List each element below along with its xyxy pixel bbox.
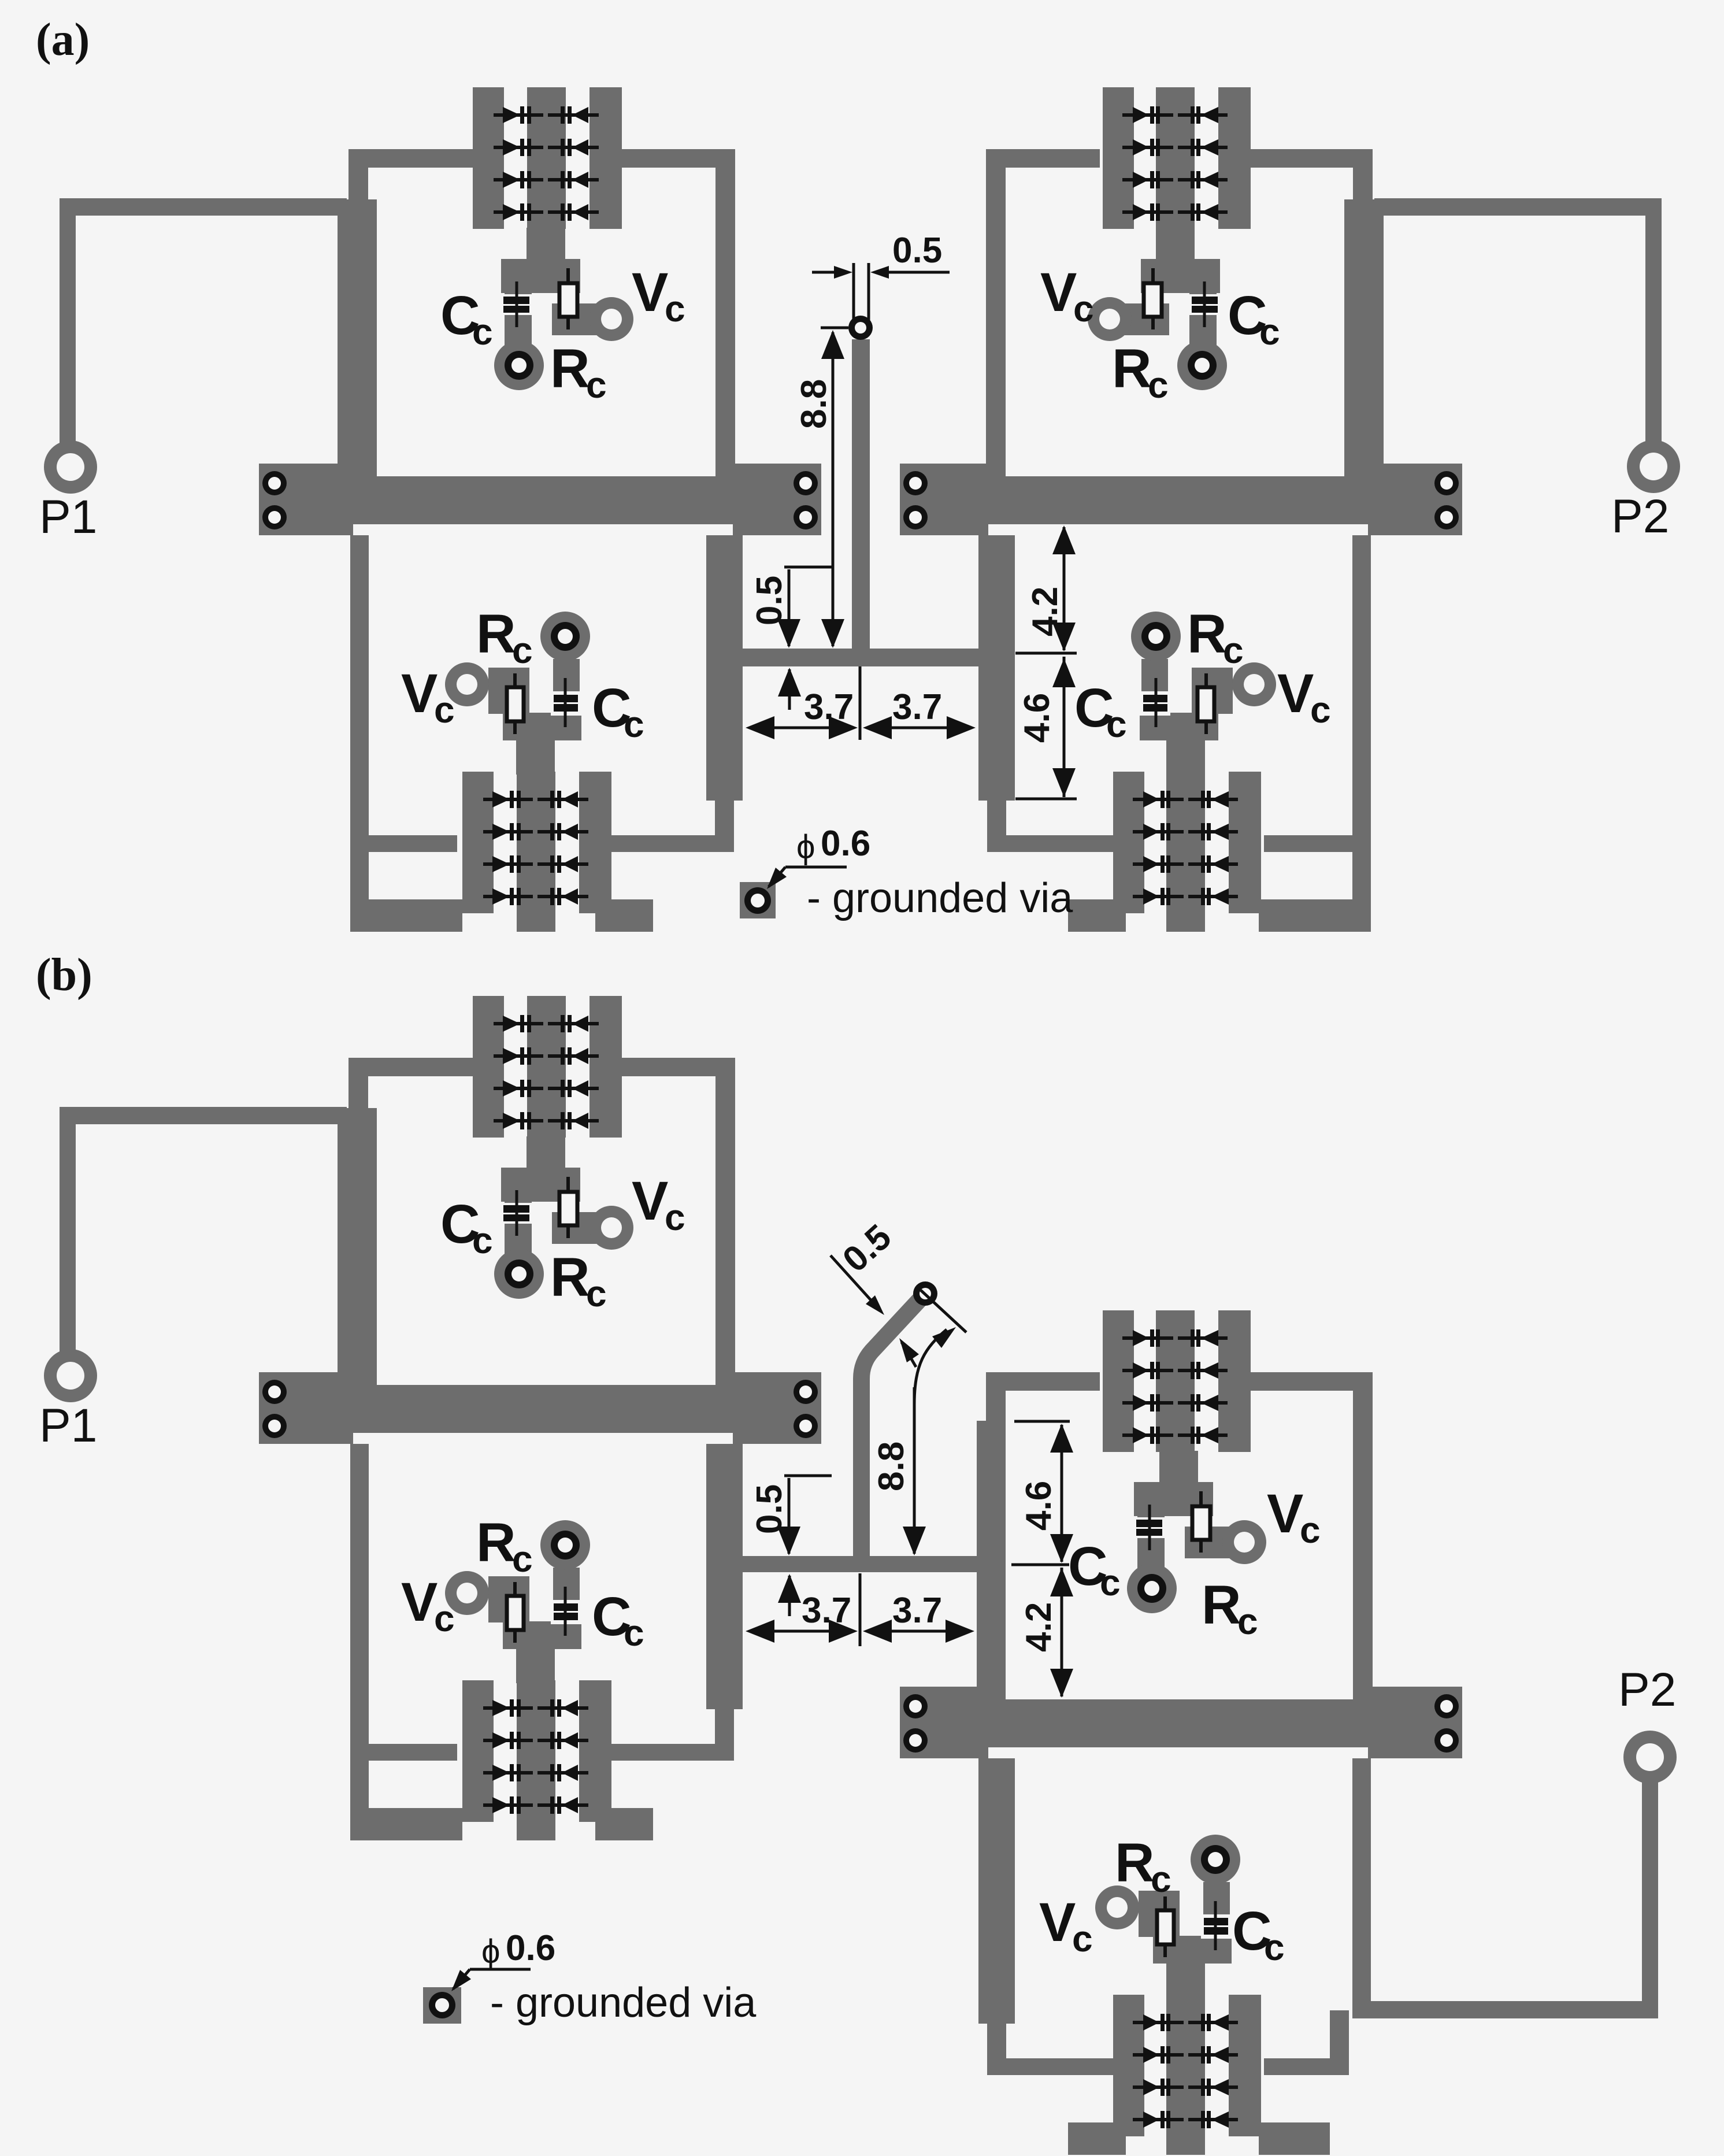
wire b top-left cell ring top bar	[348, 1058, 473, 1076]
wire a bottom-left cell inner wide wall	[706, 535, 743, 801]
dim 4.2 line (panel b)	[1011, 1564, 1069, 1566]
wire a left ground bus inner cap	[733, 464, 821, 535]
svg-text:R: R	[476, 1512, 516, 1573]
via pad Rc a top-left	[494, 340, 544, 390]
b bottom-right cell diode row 4	[1133, 2118, 1184, 2121]
dim 4.2 line (panel a)	[1015, 652, 1077, 655]
wire central bottom bus (panel b)	[743, 1556, 978, 1572]
svg-text:- grounded via: - grounded via	[807, 875, 1073, 921]
svg-text:ϕ: ϕ	[796, 828, 815, 866]
svg-text:c: c	[434, 689, 455, 731]
b top-right cell diode row 2	[1122, 1369, 1173, 1372]
wire a top-left cell ring outer wall	[348, 149, 368, 199]
wire b top-right bias L-pad	[1185, 1527, 1234, 1558]
svg-text:3.7: 3.7	[892, 1591, 942, 1631]
wire a top-right cell ring outer wall	[1353, 149, 1373, 199]
wire a bottom-right cell inner wide wall	[978, 535, 1015, 801]
wire a left ground bus band	[259, 476, 821, 524]
wire b bottom-right cell bottom bar	[1264, 2058, 1348, 2075]
resistor Rc b top-right	[1199, 1491, 1203, 1553]
b bottom-right cell diode row 2	[1133, 2053, 1184, 2057]
capacitor Cc a bottom-right gap	[1139, 691, 1170, 716]
b top-right cell diode row 3	[1122, 1401, 1173, 1405]
svg-text:4.6: 4.6	[1019, 1481, 1059, 1531]
capacitor Cc a bottom-left gap	[551, 691, 582, 716]
capacitor Cc a top-right gap	[1186, 294, 1221, 315]
dim 0.5 stub width lines (panel a)	[852, 263, 855, 324]
svg-text:V: V	[401, 663, 438, 724]
grounded via b left bus inner top	[794, 1380, 818, 1404]
wire a top-right cell ring inner wall	[986, 149, 1006, 476]
svg-text:8.8: 8.8	[872, 1442, 911, 1491]
svg-text:c: c	[624, 703, 644, 745]
svg-text:c: c	[1259, 311, 1280, 353]
wire a bottom-right bias tee pad	[1140, 713, 1218, 740]
grounded via a right bus inner bottom	[903, 505, 928, 529]
wire central stub with bend (panel b)	[862, 1294, 926, 1556]
port P2 pad (panel b)	[1623, 1731, 1677, 1784]
via pad Vc b bottom-right	[1095, 1885, 1139, 1929]
svg-text:c: c	[1072, 1918, 1093, 1959]
svg-text:ϕ: ϕ	[481, 1933, 500, 1970]
svg-text:- grounded via: - grounded via	[490, 1980, 757, 2026]
wire a left ground bus outer cap	[259, 464, 353, 535]
svg-text:P1: P1	[39, 1399, 97, 1452]
svg-text:c: c	[1310, 689, 1331, 731]
svg-text:3.7: 3.7	[802, 1591, 851, 1631]
a top-left cell diode row 4	[494, 210, 543, 214]
svg-text:R: R	[1112, 338, 1152, 399]
b bottom-left cell pads	[462, 1680, 494, 1822]
wire a bottom-right cell bottom foot	[1259, 899, 1371, 932]
legend leader (panel a)	[785, 866, 847, 869]
svg-text:c: c	[1100, 1562, 1121, 1603]
arrow below central bus (panel b)	[788, 1576, 791, 1616]
capacitor Cc b bottom-right gap	[1201, 1914, 1232, 1939]
via pad Rc b bottom-left	[540, 1520, 590, 1570]
b top-left cell pads	[473, 996, 504, 1138]
b bottom-right cell diode row 3	[1133, 2085, 1184, 2089]
b top-left cell diode row 4	[494, 1119, 543, 1123]
svg-text:c: c	[586, 364, 607, 406]
wire a bottom-left capacitor trace	[553, 659, 580, 714]
a top-right cell diode row 4	[1122, 210, 1173, 214]
wire b left ground bus inner cap	[733, 1372, 821, 1444]
svg-text:R: R	[476, 603, 516, 665]
b bottom-left cell diode row 4	[483, 1803, 533, 1807]
dim 0.5 leader (panel b)	[831, 1255, 880, 1310]
wire a bottom-right cell bottom bar	[1264, 835, 1371, 852]
grounded via b left bus outer bottom	[262, 1414, 287, 1438]
resistor Rc b bottom-right	[1163, 1896, 1167, 1957]
svg-text:3.7: 3.7	[892, 687, 942, 727]
via pad Vc b bottom-left	[445, 1571, 489, 1615]
svg-text:c: c	[586, 1273, 607, 1314]
wire b bottom-right cell bottom foot	[1259, 2122, 1330, 2155]
svg-text:V: V	[401, 1572, 438, 1633]
wire a right ground bus band	[900, 476, 1462, 524]
via pad Vc a top-right	[1088, 297, 1132, 341]
wire b bottom-left cell inner wide wall	[706, 1444, 743, 1709]
dim 3.7 divider (panel a)	[859, 666, 862, 740]
wire b bottom-left bias stem	[516, 1647, 555, 1683]
legend grounded via pad (panel a)	[740, 882, 776, 918]
wire a bottom-right capacitor trace	[1141, 659, 1168, 714]
a bottom-right cell diode row 4	[1133, 895, 1184, 898]
svg-text:V: V	[632, 262, 668, 323]
wire P1 feed horizontal (panel b)	[60, 1107, 347, 1124]
svg-text:V: V	[1039, 1892, 1076, 1953]
wire P1 feed horizontal (panel a)	[60, 198, 347, 216]
b bottom-right cell pads	[1113, 1995, 1144, 2136]
wire a bottom-left cell bottom foot	[350, 899, 462, 932]
wire a top-left cell ring top bar	[348, 149, 473, 168]
a top-left cell diode row 3	[494, 178, 543, 181]
wire b bottom-right cell inner narrow wall	[987, 2024, 1006, 2059]
svg-text:c: c	[1300, 1509, 1321, 1551]
a bottom-left cell diode row 4	[483, 895, 533, 898]
legend leader (panel b)	[470, 1968, 531, 1971]
via pad Rc b top-right	[1127, 1564, 1177, 1613]
svg-text:R: R	[1187, 603, 1227, 665]
svg-text:c: c	[665, 1196, 685, 1238]
wire a right ground bus inner cap	[900, 464, 988, 535]
b top-right cell pads	[1103, 1310, 1134, 1452]
svg-text:c: c	[1106, 703, 1127, 745]
wire b bottom-right cell outer wall	[1352, 1758, 1371, 2017]
svg-text:c: c	[624, 1612, 644, 1654]
via pad Vc a bottom-right	[1232, 662, 1276, 706]
grounded via a left bus inner top	[794, 471, 818, 495]
capacitor Cc a top-left plates	[503, 297, 529, 304]
grounded via a left bus inner bottom	[794, 505, 818, 529]
wire b bottom-left bias L-pad	[488, 1576, 529, 1622]
wire a bottom-right bias L-pad	[1192, 668, 1233, 714]
a bottom-right cell diode row 2	[1133, 830, 1184, 833]
svg-text:c: c	[434, 1598, 455, 1639]
wire b top-right capacitor trace	[1137, 1515, 1165, 1570]
wire b bottom-right capacitor trace	[1203, 1882, 1230, 1937]
svg-text:0.6: 0.6	[506, 1928, 555, 1968]
wire a top-right capacitor trace	[1189, 292, 1217, 347]
wire b left ground bus band	[259, 1385, 821, 1433]
wire P1 feed vertical (panel a)	[60, 199, 76, 448]
wire b top-left bias stem	[527, 1136, 565, 1170]
svg-text:R: R	[1115, 1832, 1155, 1894]
resistor Rc b top-left	[566, 1177, 570, 1238]
wire a top-left bias tee pad	[501, 259, 580, 293]
b bottom-left cell diode row 2	[483, 1739, 533, 1742]
wire b right ground bus outer cap	[1368, 1687, 1462, 1758]
grounded via b right bus inner bottom	[903, 1728, 928, 1753]
wire a bottom-right cell inner narrow wall	[987, 801, 1006, 836]
svg-text:(a): (a)	[36, 14, 90, 65]
a top-right cell pads	[1103, 87, 1134, 229]
svg-text:c: c	[472, 1220, 493, 1261]
wire a top-right bias tee pad	[1141, 259, 1220, 293]
wire b bottom-left cell inner narrow wall	[715, 1709, 734, 1744]
dim 3.7 divider (panel b)	[859, 1573, 862, 1646]
a top-left cell pads	[473, 87, 504, 229]
open via at stub top (panel a)	[848, 316, 873, 340]
wire b right ground bus inner cap	[900, 1687, 988, 1758]
b bottom-left cell diode row 3	[483, 1771, 533, 1775]
capacitor Cc b top-left plates	[503, 1205, 529, 1213]
b top-left cell diode row 2	[494, 1054, 543, 1058]
wire b top-right cell ring outer wall	[1353, 1372, 1373, 1699]
grounded via b left bus inner bottom	[794, 1414, 818, 1438]
via pad Vc b top-right	[1222, 1520, 1266, 1564]
a top-right cell diode row 3	[1122, 178, 1173, 181]
svg-text:V: V	[632, 1170, 668, 1232]
wire b bottom-left capacitor trace	[553, 1568, 580, 1622]
capacitor Cc a top-right plates	[1192, 297, 1218, 304]
svg-text:R: R	[1202, 1575, 1241, 1636]
wire b right ground bus band	[900, 1699, 1462, 1747]
resistor Rc a top-right	[1151, 268, 1155, 329]
wire b bottom-left cell bottom foot	[350, 1808, 462, 1840]
wire b top-right cell ring inner wall	[986, 1372, 1006, 1699]
wire b bottom-left cell outer wall	[350, 1444, 369, 1840]
svg-text:R: R	[550, 338, 590, 399]
grounded via b left bus outer top	[262, 1380, 287, 1404]
wire b top-left bias tee pad	[501, 1168, 580, 1202]
wire a top-left bias L-pad	[552, 303, 602, 335]
a bottom-left cell diode row 2	[483, 830, 533, 833]
wire a top-right bias stem	[1156, 228, 1195, 261]
dim 4.6 line (panel a)	[1015, 798, 1077, 801]
capacitor Cc b top-right gap	[1133, 1517, 1168, 1538]
a top-right cell diode row 1	[1122, 113, 1173, 117]
wire a top-left capacitor trace	[505, 292, 532, 347]
wire b left ground bus outer cap	[259, 1372, 353, 1444]
wire a right ground bus outer cap	[1368, 464, 1462, 535]
svg-text:c: c	[1151, 1858, 1171, 1900]
via pad Vc a top-left	[590, 297, 633, 341]
legend grounded via pad (panel b)	[423, 1987, 461, 2024]
svg-text:c: c	[472, 311, 493, 353]
grounded via b right bus outer bottom	[1434, 1728, 1459, 1753]
b top-left cell diode row 1	[494, 1022, 543, 1025]
wire P1 feed vertical (panel b)	[60, 1108, 76, 1357]
via pad Rc a bottom-right	[1131, 612, 1181, 661]
dim 0.5 far rail line (panel b)	[921, 1290, 966, 1332]
via pad Rc a bottom-left	[540, 612, 590, 661]
grounded via a left bus outer bottom	[262, 505, 287, 529]
grounded via b right bus inner top	[903, 1694, 928, 1718]
svg-text:c: c	[665, 288, 685, 329]
capacitor Cc b bottom-right plates	[1204, 1918, 1228, 1925]
wire b top-left cell ring outer wall	[348, 1058, 368, 1108]
wire central stub (panel a)	[852, 339, 870, 649]
wire a top-left cell ring inner wall	[715, 149, 735, 476]
svg-text:V: V	[1277, 663, 1314, 724]
grounded via b right bus outer top	[1434, 1694, 1459, 1718]
dim 0.5 gap line (panel a)	[784, 566, 832, 569]
port P1 pad (panel b)	[44, 1349, 97, 1402]
wire bottom-right cell wall step (panel b)	[1330, 2010, 1349, 2075]
via pad Vc b top-left	[590, 1206, 633, 1250]
svg-text:c: c	[1237, 1601, 1258, 1642]
svg-text:4.2: 4.2	[1019, 1602, 1059, 1652]
svg-text:(b): (b)	[36, 950, 92, 1001]
resistor Rc b bottom-left	[513, 1582, 517, 1643]
wire b bottom-right bias L-pad	[1139, 1891, 1180, 1937]
resistor Rc a bottom-right	[1204, 673, 1208, 734]
wire b top-right cell ring top bar	[1248, 1372, 1373, 1391]
svg-text:4.6: 4.6	[1017, 693, 1057, 743]
a top-right cell diode row 2	[1122, 146, 1173, 149]
via pad Vc a bottom-left	[445, 662, 489, 706]
wire b top-left bias L-pad	[552, 1212, 602, 1244]
a bottom-right cell diode row 3	[1133, 862, 1184, 866]
wire P2 feed horizontal (panel a)	[1374, 198, 1662, 216]
svg-text:8.8: 8.8	[794, 379, 834, 429]
wire a bottom-left cell outer wall	[350, 535, 369, 932]
svg-text:c: c	[1223, 629, 1244, 671]
port P2 pad (panel a)	[1627, 440, 1680, 493]
svg-text:P1: P1	[39, 491, 97, 543]
svg-text:P2: P2	[1611, 490, 1669, 543]
grounded via a right bus inner top	[903, 471, 928, 495]
wire a bottom-left cell bottom bar	[350, 835, 457, 852]
svg-text:c: c	[512, 1538, 533, 1580]
wire b top-right bias tee pad	[1134, 1482, 1213, 1516]
b bottom-right cell diode row 1	[1133, 2021, 1184, 2024]
arrow below central bus (panel a)	[788, 669, 791, 710]
wire a bottom-left bias L-pad	[488, 668, 529, 714]
a bottom-right cell pads	[1113, 772, 1144, 913]
grounded via a right bus outer bottom	[1434, 505, 1459, 529]
wire central bottom bus (panel a)	[743, 649, 978, 666]
svg-text:c: c	[1264, 1927, 1285, 1968]
capacitor Cc a bottom-right plates	[1143, 695, 1167, 702]
wire a top-right cell ring top bar	[1248, 149, 1373, 168]
open via at stub top (panel b)	[913, 1281, 937, 1306]
a top-left cell diode row 1	[494, 113, 543, 117]
svg-text:R: R	[550, 1247, 590, 1308]
wire b top-left cell ring inner wall	[715, 1058, 735, 1385]
capacitor Cc a bottom-left plates	[554, 695, 578, 702]
svg-text:0.6: 0.6	[821, 824, 870, 864]
grounded via a right bus outer top	[1434, 471, 1459, 495]
wire b bottom-left bias tee pad	[503, 1621, 581, 1649]
wire P2 feed vertical (panel b)	[1642, 1780, 1658, 2009]
wire a bottom-left cell inner narrow wall	[715, 801, 734, 836]
svg-text:V: V	[1040, 262, 1077, 323]
svg-text:0.5: 0.5	[750, 576, 789, 625]
resistor Rc a top-left	[566, 268, 570, 329]
capacitor Cc b top-left gap	[500, 1203, 535, 1224]
dim 0.5 gap line (panel b)	[784, 1475, 832, 1477]
capacitor Cc a top-left gap	[500, 294, 535, 315]
via pad Rc b top-left	[494, 1249, 544, 1299]
dim 8.8 line (panel b)	[913, 1387, 916, 1554]
wire b bottom-right bias tee pad	[1153, 1936, 1232, 1964]
a bottom-right cell diode row 1	[1133, 798, 1184, 801]
a bottom-left cell pads	[462, 772, 494, 913]
grounded via a left bus outer top	[262, 471, 287, 495]
resistor Rc a bottom-left	[513, 673, 517, 734]
wire b bottom-right cell inner wide wall	[978, 1758, 1015, 2024]
svg-text:c: c	[1148, 364, 1169, 406]
wire b top-left capacitor trace	[505, 1201, 532, 1255]
wire a bottom-right bias stem	[1166, 738, 1205, 775]
wire b top-right bias stem	[1159, 1451, 1198, 1484]
wire P2 feed horizontal (panel b)	[1352, 2001, 1658, 2018]
svg-text:V: V	[1267, 1483, 1303, 1544]
svg-text:P2: P2	[1618, 1664, 1676, 1716]
a top-left cell diode row 2	[494, 146, 543, 149]
wire a bottom-left bias stem	[516, 738, 555, 775]
wire b bottom-left cell bottom bar	[350, 1744, 457, 1761]
a bottom-left cell diode row 1	[483, 798, 533, 801]
wire a top-left bias stem	[527, 228, 565, 261]
b top-left cell diode row 3	[494, 1087, 543, 1090]
svg-text:0.5: 0.5	[892, 231, 942, 271]
svg-text:c: c	[512, 629, 533, 671]
capacitor Cc b bottom-left plates	[554, 1603, 578, 1611]
wire a top-right bias L-pad	[1119, 303, 1169, 335]
via pad Rc a top-right	[1177, 340, 1227, 390]
b bottom-left cell diode row 1	[483, 1706, 533, 1710]
capacitor Cc b bottom-left gap	[551, 1600, 582, 1624]
dim 4.6 line (panel b)	[1014, 1420, 1070, 1423]
b top-right cell diode row 4	[1122, 1433, 1173, 1437]
dim 8.8 line (panel a)	[821, 327, 848, 329]
b top-right cell diode row 1	[1122, 1336, 1173, 1340]
svg-text:c: c	[1073, 288, 1094, 329]
wire b bottom-right bias stem	[1166, 1961, 1205, 1998]
wire a bottom-left bias tee pad	[503, 713, 581, 740]
wire a bottom-right cell outer wall	[1352, 535, 1371, 932]
a bottom-left cell diode row 3	[483, 862, 533, 866]
via pad Rc b bottom-right	[1191, 1835, 1240, 1884]
capacitor Cc b top-right plates	[1136, 1520, 1162, 1527]
wire P2 feed vertical (panel a)	[1645, 199, 1662, 448]
port P1 pad (panel a)	[44, 440, 97, 494]
